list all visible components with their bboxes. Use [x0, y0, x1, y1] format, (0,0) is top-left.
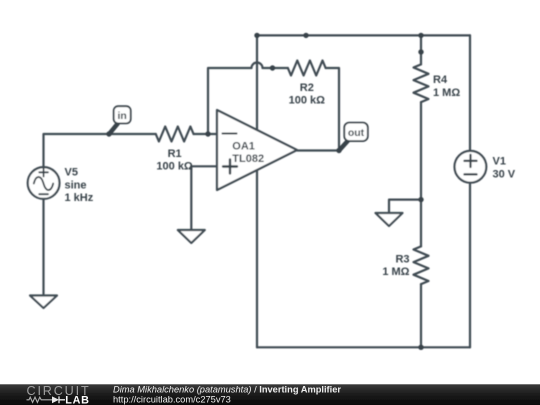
op-amp inverting input marker	[223, 133, 237, 135]
wire ground branch from R3/R4 node	[389, 200, 421, 213]
svg-text:R1: R1	[168, 148, 182, 160]
CircuitLab logo resistor-diode symbol	[27, 396, 66, 403]
svg-text:30 V: 30 V	[493, 168, 516, 180]
wire R2 right lead down to output node	[326, 68, 339, 151]
junction node bottom rail	[418, 345, 423, 350]
junction node out	[336, 148, 341, 153]
net label out leader	[339, 141, 348, 151]
svg-text:LAB: LAB	[65, 395, 89, 405]
ground below V5	[30, 296, 57, 309]
wire op-amp V- power pin	[256, 170, 258, 347]
svg-text:http://circuitlab.com/c275v73: http://circuitlab.com/c275v73	[113, 394, 231, 404]
svg-text:V5: V5	[65, 167, 78, 179]
op-amp non-inverting input marker	[223, 160, 237, 174]
V5 sine symbol	[34, 177, 53, 190]
junction node ground branch	[418, 197, 423, 202]
junction node top-left corner	[254, 33, 259, 38]
junction node feedback at R2	[270, 65, 275, 70]
svg-text:100 kΩ: 100 kΩ	[289, 95, 326, 107]
wire top rail	[257, 34, 470, 36]
svg-text:OA1: OA1	[232, 140, 255, 152]
voltage source V1 circle	[455, 151, 487, 183]
junction node in	[106, 131, 111, 136]
svg-text:R3: R3	[395, 254, 409, 266]
wire R1 right to op-amp inverting input	[194, 133, 217, 135]
voltage source V5 circle	[28, 167, 60, 199]
svg-text:TL082: TL082	[232, 153, 264, 165]
wire R4 bottom to R3 top	[420, 102, 422, 246]
svg-text:sine: sine	[65, 180, 87, 192]
footer bar	[0, 384, 540, 405]
junction node R4 lead	[418, 49, 423, 54]
net label out box	[344, 123, 368, 142]
svg-text:V1: V1	[493, 155, 506, 167]
resistor R1	[156, 127, 194, 142]
wire V5 top to R1 left (node in)	[44, 134, 156, 167]
wire op-amp output	[297, 149, 339, 151]
net label in leader	[110, 124, 118, 134]
resistor R4	[414, 64, 429, 102]
svg-text:1 MΩ: 1 MΩ	[433, 87, 460, 99]
junction node feedback at inverting input	[205, 131, 210, 136]
op-amp OA1 triangle	[217, 110, 297, 190]
svg-text:1 kHz: 1 kHz	[65, 192, 94, 204]
wire non-inverting input	[191, 165, 217, 167]
svg-text:out: out	[348, 127, 365, 139]
wire right rail upper (to V1 top)	[469, 35, 471, 151]
wire R4 top lead	[420, 35, 422, 64]
resistor R3	[414, 246, 429, 284]
net label in box	[114, 106, 131, 123]
wire feedback left segment with hop over power line	[208, 63, 288, 135]
svg-text:in: in	[118, 110, 127, 122]
svg-text:R4: R4	[433, 74, 448, 86]
junction node on top rail	[303, 33, 308, 38]
svg-text:100 kΩ: 100 kΩ	[156, 161, 193, 173]
ground below non-inverting input	[178, 230, 205, 243]
V1 minus sign	[464, 173, 476, 175]
V1 plus sign	[464, 155, 476, 167]
ground at R3/R4 node	[376, 213, 403, 226]
V5 plus sign	[39, 168, 48, 176]
wire bottom rail	[257, 346, 470, 348]
junction node top rail at R4	[418, 33, 423, 38]
wire V5 bottom to ground	[42, 199, 44, 296]
svg-text:Dima Mikhalchenko (patamushta): Dima Mikhalchenko (patamushta) / Inverti…	[113, 384, 341, 394]
resistor R2	[288, 61, 326, 76]
wire right rail lower (V1 bottom to bottom rail)	[469, 183, 471, 348]
V5 minus sign	[39, 193, 48, 195]
svg-text:1 MΩ: 1 MΩ	[382, 266, 409, 278]
wire R3 bottom lead	[420, 284, 422, 347]
wire non-inverting input to ground	[190, 166, 192, 230]
svg-text:R2: R2	[300, 82, 314, 94]
wire op-amp V+ power pin	[256, 35, 258, 129]
